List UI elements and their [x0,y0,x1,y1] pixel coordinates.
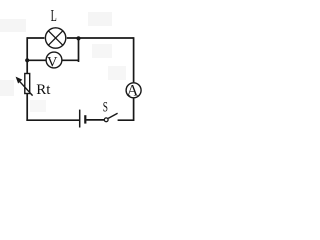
node junction dot top (voltmeter tap right) [76,36,80,40]
switch S [104,113,117,122]
wire bottom (left corner to battery) [26,119,79,121]
wire voltmeter branch horizontal [27,59,78,61]
rheostat Rt [16,74,33,96]
svg-text:V: V [47,55,58,71]
wire top horizontal (lamp to top-right corner) [67,37,134,39]
lamp L [45,28,65,48]
voltmeter V [46,52,62,70]
wire right vertical (bottom corner to ammeter) [133,99,135,122]
svg-text:Rt: Rt [36,82,51,98]
svg-text:L: L [51,6,57,25]
wire left vertical (rheostat to bottom corner) [26,93,28,121]
node junction dot left (voltmeter tap) [25,58,29,62]
wire right vertical (ammeter to top-right corner) [133,37,135,82]
svg-text:A: A [127,83,139,100]
wire bottom (switch to bottom-right corner) [118,119,134,121]
wire bottom (battery to switch) [86,119,104,121]
wire top-left horizontal (corner to lamp) [27,37,44,39]
battery [80,110,86,128]
ammeter A [126,83,141,100]
wire left vertical (top corner to rheostat) [26,37,28,74]
svg-text:S: S [103,100,108,116]
wire voltmeter branch vertical drop [78,38,80,62]
